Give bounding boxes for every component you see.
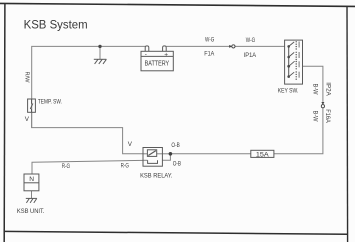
page frame right border — [346, 6, 349, 242]
page frame top border — [0, 3, 355, 6]
KSB unit — [24, 174, 39, 191]
temp switch — [28, 99, 36, 112]
svg-text:B-W: B-W — [312, 111, 318, 122]
junction dot at ground tap — [98, 45, 101, 48]
svg-text:O-B: O-B — [173, 160, 181, 167]
wire: KSB unit to relay bottom (R-G) — [32, 160, 143, 174]
wire: right vertical below connector to fuse line — [274, 108, 323, 154]
ground symbol (top, battery minus) — [94, 59, 107, 64]
svg-text:F1A: F1A — [204, 51, 215, 58]
wire: connector to key switch — [235, 45, 285, 47]
junction dot right of relay — [169, 152, 173, 156]
KSB relay — [143, 148, 162, 167]
connector IP2A/F16A (vertical, triangle into circle) — [321, 102, 324, 105]
key switch SW1 — [285, 40, 303, 84]
svg-text:R-G: R-G — [62, 163, 70, 170]
wire: top horizontal left segment (corner to battery -) — [32, 46, 146, 127]
key switch pole dots — [287, 45, 290, 78]
svg-text:KSB UNIT.: KSB UNIT. — [17, 208, 45, 215]
page frame bottom border — [4, 231, 347, 234]
svg-text:+: + — [164, 51, 168, 58]
key switch internal bus — [288, 46, 290, 76]
key switch contact dots — [296, 41, 297, 80]
svg-text:O-B: O-B — [171, 142, 179, 149]
svg-text:B-W: B-W — [312, 84, 318, 95]
svg-text:IP2A: IP2A — [324, 82, 330, 96]
wire: relay coil to junction — [157, 153, 171, 155]
fuse 15A — [251, 150, 274, 157]
svg-text:W-G: W-G — [246, 37, 255, 44]
svg-text:KEY SW.: KEY SW. — [278, 88, 299, 95]
wire: temp switch lower path to relay — [32, 112, 143, 154]
key switch tiny position labels — [299, 42, 300, 78]
svg-text:TEMP. SW.: TEMP. SW. — [38, 99, 62, 106]
svg-text:N: N — [29, 176, 34, 183]
wire: ground stem at top — [99, 46, 101, 59]
wire: battery + to connector — [166, 45, 231, 47]
svg-text:F16A: F16A — [324, 109, 330, 123]
wire: relay junction to fuse — [170, 153, 250, 155]
svg-text:-: - — [145, 51, 147, 58]
wire: relay coil left lead inside box — [143, 153, 147, 155]
svg-text:KSB System: KSB System — [24, 17, 88, 31]
battery B1 — [141, 46, 173, 71]
wire: junction down leg into relay contact — [162, 154, 170, 160]
page frame left border — [3, 3, 6, 242]
wire: relay contact left lead — [143, 159, 148, 161]
svg-text:R-G: R-G — [121, 162, 129, 169]
key switch wipers — [289, 42, 295, 77]
ground symbol (KSB unit) — [26, 198, 37, 203]
connector F1A/IP1A (triangle into circle) — [229, 45, 232, 48]
svg-text:KSB RELAY.: KSB RELAY. — [140, 172, 173, 179]
svg-text:R/W: R/W — [23, 72, 29, 84]
svg-text:15A: 15A — [256, 151, 270, 158]
wire: KSB unit to ground stem — [31, 191, 33, 199]
svg-text:BATTERY: BATTERY — [145, 60, 170, 67]
wire: key switch output to right corner — [303, 66, 323, 102]
svg-text:W-G: W-G — [205, 37, 214, 44]
svg-text:IP1A: IP1A — [244, 52, 257, 59]
